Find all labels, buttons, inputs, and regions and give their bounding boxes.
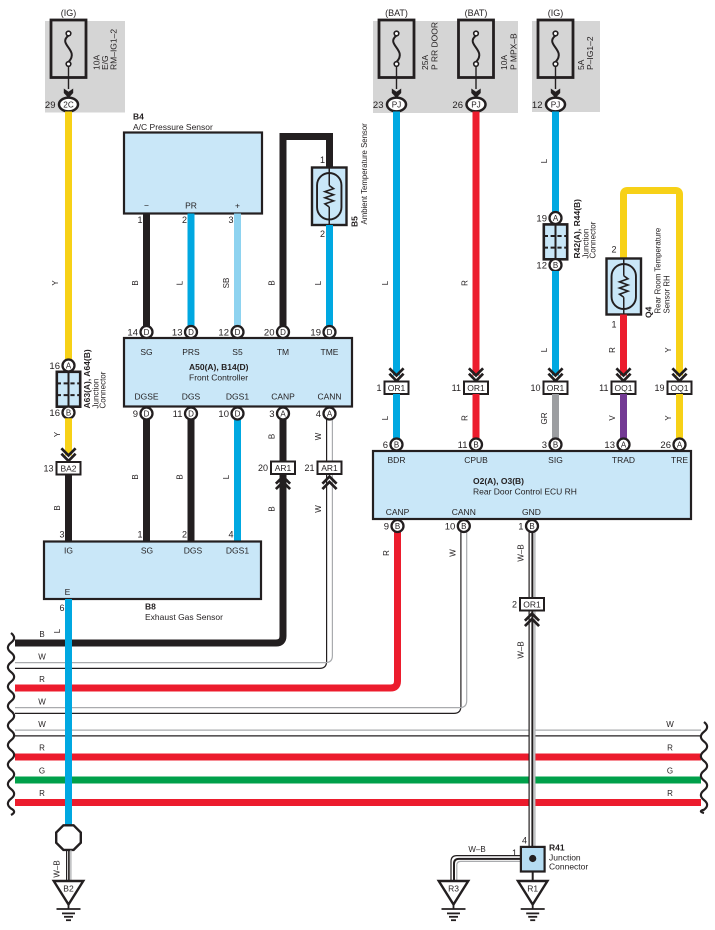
svg-text:BA2: BA2	[60, 463, 76, 473]
svg-text:W: W	[38, 698, 46, 707]
svg-text:19: 19	[310, 327, 321, 338]
exhaust gas sensor B8	[44, 542, 261, 623]
svg-text:G: G	[39, 767, 45, 776]
wire L, OR1 to BDR	[381, 394, 397, 445]
svg-text:Y: Y	[664, 347, 673, 353]
svg-text:RM–IG1–2: RM–IG1–2	[109, 29, 119, 70]
svg-text:V: V	[608, 415, 617, 421]
svg-text:1: 1	[137, 215, 142, 225]
connector PJ pin 23	[373, 98, 406, 112]
svg-text:W–B: W–B	[517, 641, 526, 658]
svg-text:(IG): (IG)	[61, 8, 77, 18]
svg-text:AR1: AR1	[275, 463, 292, 473]
rear room temperature sensor Q4	[607, 228, 672, 318]
svg-text:R: R	[382, 550, 391, 556]
wire L, B4 pin 2 to PRS	[176, 214, 192, 333]
svg-text:L: L	[176, 280, 185, 285]
svg-text:S5: S5	[232, 347, 243, 357]
svg-text:6: 6	[383, 440, 388, 451]
svg-text:R: R	[608, 347, 617, 353]
wire R, OR1 to CPUB	[461, 394, 477, 445]
svg-text:R41: R41	[549, 843, 565, 853]
svg-text:20: 20	[258, 463, 268, 473]
svg-text:PR: PR	[185, 201, 197, 211]
wire L, junction R44 to OR1	[540, 271, 556, 376]
svg-text:OR1: OR1	[388, 383, 406, 393]
pin 10 B (CANN)	[445, 520, 470, 532]
svg-text:R3: R3	[448, 884, 459, 894]
svg-text:12: 12	[218, 327, 229, 338]
wire B, TM to B5 pin 1	[268, 137, 330, 333]
svg-text:TME: TME	[321, 347, 339, 357]
svg-text:Rear Room Temperature: Rear Room Temperature	[654, 228, 663, 314]
svg-text:PRS: PRS	[182, 347, 200, 357]
fuse 25A P RR DOOR	[379, 8, 440, 98]
svg-text:9: 9	[133, 409, 138, 420]
svg-text:OR1: OR1	[523, 599, 541, 609]
wire Y, junction A64 to BA2	[53, 418, 69, 455]
svg-text:PJ: PJ	[551, 100, 561, 109]
connector AR1 pin 21 with arrow	[304, 462, 341, 490]
svg-text:W: W	[38, 653, 46, 662]
svg-text:B5: B5	[350, 216, 360, 227]
svg-text:Front Controller: Front Controller	[189, 373, 248, 383]
junction connector R41	[512, 836, 588, 872]
wire R bus, ECU CANP to left edge	[15, 532, 398, 689]
svg-text:Connector: Connector	[589, 221, 598, 258]
svg-text:13: 13	[604, 440, 615, 451]
pin 3 B (SIG)	[542, 439, 562, 451]
svg-text:A: A	[66, 361, 72, 370]
connector BA2 pin 13 with arrow	[43, 448, 80, 474]
wire W bus full width	[15, 720, 701, 737]
svg-text:Sensor RH: Sensor RH	[663, 275, 672, 313]
svg-text:21: 21	[304, 463, 314, 473]
svg-text:L: L	[540, 347, 549, 352]
svg-text:W–B: W–B	[468, 845, 485, 854]
connector AR1 pin 20 with arrow	[258, 462, 295, 490]
svg-text:CANN: CANN	[317, 392, 341, 402]
fuse 5A P-IG1-2	[538, 8, 595, 98]
svg-text:A: A	[280, 409, 286, 418]
svg-text:19: 19	[654, 383, 664, 393]
svg-text:R1: R1	[527, 884, 538, 894]
wire W-B, ECU GND to R41 pin 4	[517, 532, 536, 847]
svg-text:B: B	[268, 506, 277, 511]
pin 10 D (DGS1)	[218, 408, 243, 420]
wire GR, OR1 to SIG	[540, 394, 556, 445]
wire R, Q4 pin 1 to OQ1	[608, 315, 624, 376]
pin 26 A (TRE)	[660, 439, 685, 451]
svg-text:W: W	[449, 549, 458, 557]
svg-text:OQ1: OQ1	[671, 383, 689, 393]
svg-text:DGSE: DGSE	[134, 392, 158, 402]
wire Y loop, Q4 pin 2 to OQ1 pin 19	[611, 191, 679, 376]
svg-text:−: −	[144, 201, 149, 211]
connector OR1 pin 10 with arrow	[530, 368, 567, 394]
svg-text:2: 2	[182, 530, 187, 540]
fuse 10A P MPX-B	[459, 8, 519, 98]
rear door control ECU RH O2(A) O3(B)	[373, 451, 691, 519]
wire B, DGSE to exhaust SG	[131, 414, 147, 542]
svg-text:B: B	[176, 474, 185, 479]
front controller A50(A) B14(D)	[124, 338, 352, 407]
pin 14 D (SG)	[127, 326, 152, 338]
svg-text:A63(A), A64(B): A63(A), A64(B)	[82, 349, 92, 408]
svg-text:A: A	[327, 409, 333, 418]
svg-text:TRE: TRE	[671, 455, 688, 465]
pin 1 B (GND)	[518, 520, 538, 532]
A/C pressure sensor B4	[124, 112, 262, 214]
svg-text:OQ1: OQ1	[615, 383, 633, 393]
svg-text:L: L	[540, 158, 549, 163]
svg-text:(BAT): (BAT)	[385, 8, 408, 18]
svg-text:DGS: DGS	[184, 546, 203, 556]
pin 9 D (DGSE)	[133, 408, 153, 420]
svg-text:W: W	[314, 505, 323, 513]
svg-text:B8: B8	[145, 602, 156, 612]
svg-text:B2: B2	[63, 884, 74, 894]
svg-text:B: B	[131, 474, 140, 479]
svg-text:B: B	[394, 440, 399, 449]
junction connector R42(A) R44(B)	[536, 199, 597, 272]
svg-text:D: D	[235, 328, 241, 337]
svg-text:B: B	[131, 280, 140, 285]
wire R bus 2 full width	[15, 789, 701, 803]
wire L, fuse PJ 23 to OR1	[381, 112, 397, 376]
connector PJ pin 12	[532, 98, 565, 112]
svg-text:B: B	[553, 440, 558, 449]
svg-text:SB: SB	[222, 278, 231, 289]
svg-text:DGS1: DGS1	[226, 392, 249, 402]
svg-text:12: 12	[536, 260, 547, 271]
svg-text:PJ: PJ	[471, 100, 481, 109]
svg-text:11: 11	[458, 440, 468, 451]
svg-text:PJ: PJ	[392, 100, 402, 109]
svg-text:13: 13	[43, 463, 53, 473]
wire B, CANP to AR1	[268, 414, 284, 462]
svg-text:1: 1	[512, 848, 517, 858]
svg-text:3: 3	[228, 215, 233, 225]
wire L, exhaust E to shield octagon	[53, 599, 69, 826]
svg-text:26: 26	[660, 440, 671, 451]
svg-text:P MPX–B: P MPX–B	[509, 33, 519, 70]
svg-text:L: L	[381, 280, 390, 285]
wire W-B, R41 pin 1 to ground R3	[451, 845, 521, 881]
wire W bus, ECU CANN to left edge	[15, 532, 467, 714]
svg-text:Connector: Connector	[549, 862, 588, 872]
svg-text:BDR: BDR	[388, 455, 406, 465]
svg-text:CANN: CANN	[452, 507, 476, 517]
svg-text:1: 1	[137, 530, 142, 540]
svg-text:Connector: Connector	[99, 371, 108, 408]
pin 11 D (DGS)	[173, 408, 197, 420]
svg-text:P–IG1–2: P–IG1–2	[585, 36, 595, 70]
svg-text:IG: IG	[64, 546, 73, 556]
svg-text:10: 10	[530, 383, 540, 393]
svg-text:SG: SG	[141, 546, 153, 556]
svg-text:13: 13	[172, 327, 183, 338]
svg-text:16: 16	[49, 361, 60, 372]
svg-text:23: 23	[373, 100, 384, 111]
svg-text:B: B	[53, 505, 62, 510]
svg-text:L: L	[381, 415, 390, 420]
svg-text:Q4: Q4	[644, 306, 654, 318]
pin 4 A (CANN)	[316, 408, 336, 420]
svg-text:GR: GR	[540, 412, 549, 424]
connector 2C pin 29	[45, 98, 78, 112]
fuse block background middle (BAT/BAT)	[373, 21, 518, 113]
svg-text:O2(A), O3(B): O2(A), O3(B)	[473, 476, 524, 486]
svg-text:1: 1	[518, 521, 523, 532]
svg-text:B: B	[66, 408, 71, 417]
svg-text:20: 20	[264, 327, 275, 338]
ground R1	[518, 881, 548, 920]
svg-text:10: 10	[218, 409, 229, 420]
wire W, CANN to AR1	[314, 414, 333, 462]
svg-text:L: L	[314, 280, 323, 285]
svg-text:Y: Y	[664, 415, 673, 421]
svg-text:L: L	[222, 474, 231, 479]
svg-text:B: B	[395, 522, 400, 531]
svg-text:B: B	[461, 522, 466, 531]
pin 19 D (TME)	[310, 326, 335, 338]
svg-text:SG: SG	[140, 347, 152, 357]
ambient temperature sensor B5	[312, 123, 369, 227]
svg-text:D: D	[235, 409, 241, 418]
wire L, DGS1 to exhaust DGS1	[222, 414, 238, 542]
svg-text:1: 1	[376, 383, 381, 393]
svg-text:CANP: CANP	[386, 507, 410, 517]
wire L, B5 pin 2 to TME	[314, 225, 330, 332]
svg-text:(IG): (IG)	[548, 8, 564, 18]
svg-text:B: B	[268, 280, 277, 285]
svg-text:R: R	[39, 675, 45, 684]
pin 13 D (PRS)	[172, 326, 197, 338]
svg-text:L: L	[53, 628, 62, 633]
pin 6 B (BDR)	[383, 439, 403, 451]
wire V, OQ1 to TRAD	[608, 394, 624, 445]
svg-text:10A: 10A	[499, 55, 509, 70]
svg-text:B: B	[268, 434, 277, 439]
svg-text:Ambient Temperature Sensor: Ambient Temperature Sensor	[360, 123, 369, 225]
svg-text:A50(A), B14(D): A50(A), B14(D)	[189, 362, 249, 372]
shielded ground octagon	[56, 825, 81, 850]
pin 12 D (S5)	[218, 326, 243, 338]
wire SB, B4 pin 3 to S5	[222, 214, 238, 333]
fuse 10A E/G RM-IG1-2	[51, 8, 119, 98]
svg-text:Y: Y	[53, 431, 62, 437]
svg-text:OR1: OR1	[467, 383, 485, 393]
svg-text:4: 4	[316, 409, 321, 420]
svg-text:14: 14	[127, 327, 138, 338]
svg-text:DGS1: DGS1	[226, 546, 249, 556]
wire W-B, octagon to ground B2	[53, 850, 71, 881]
svg-text:W: W	[314, 432, 323, 440]
svg-text:1: 1	[320, 155, 325, 165]
svg-text:D: D	[188, 409, 194, 418]
svg-text:4: 4	[522, 836, 527, 846]
svg-text:W–B: W–B	[53, 860, 62, 877]
svg-text:(BAT): (BAT)	[465, 8, 488, 18]
svg-text:B: B	[553, 261, 558, 270]
svg-text:11: 11	[599, 383, 608, 393]
wire R, fuse PJ 26 to OR1	[461, 112, 477, 376]
svg-text:3: 3	[59, 530, 64, 540]
svg-text:4: 4	[228, 530, 233, 540]
junction connector A63(A) A64(B)	[49, 349, 107, 419]
wire B, BA2 to exhaust gas sensor IG	[53, 475, 69, 542]
svg-text:2: 2	[182, 215, 187, 225]
svg-text:+: +	[235, 201, 240, 211]
svg-text:12: 12	[532, 100, 543, 111]
svg-text:B4: B4	[133, 112, 144, 122]
wire, R41 to ground R1	[532, 872, 534, 882]
svg-text:W–B: W–B	[517, 544, 526, 561]
svg-text:G: G	[667, 767, 673, 776]
svg-text:2C: 2C	[63, 100, 74, 109]
svg-text:A: A	[677, 440, 683, 449]
pin 3 A (CANP)	[269, 408, 289, 420]
svg-text:A/C Pressure Sensor: A/C Pressure Sensor	[133, 122, 213, 132]
svg-text:Y: Y	[51, 280, 60, 286]
svg-text:2: 2	[512, 599, 517, 609]
svg-text:1: 1	[611, 320, 616, 330]
svg-text:D: D	[280, 328, 286, 337]
svg-text:25A: 25A	[420, 55, 430, 70]
wire L, fuse PJ 12 to junction R42	[540, 112, 556, 219]
fuse block background left (IG)	[45, 21, 125, 113]
wire B bus, AR1 20 to left edge	[15, 475, 283, 644]
svg-text:W: W	[38, 720, 46, 729]
svg-text:11: 11	[452, 383, 461, 393]
svg-text:W: W	[666, 720, 674, 729]
connector OQ1 pin 11 with arrow	[599, 368, 635, 394]
svg-text:DGS: DGS	[182, 392, 201, 402]
svg-text:B: B	[39, 630, 44, 639]
svg-text:D: D	[144, 409, 150, 418]
wire B, DGS to exhaust DGS	[176, 414, 192, 542]
wire R bus full width	[15, 744, 701, 758]
svg-text:B: B	[529, 522, 534, 531]
connector PJ pin 26	[452, 98, 485, 112]
pin 20 D (TM)	[264, 326, 289, 338]
ground R3	[439, 881, 469, 920]
connector OR1 pin 1 with arrow	[376, 368, 408, 394]
svg-text:GND: GND	[522, 507, 541, 517]
connector OR1 pin 2 with arrow	[512, 598, 544, 626]
svg-text:R: R	[39, 744, 45, 753]
svg-text:CANP: CANP	[271, 392, 295, 402]
wire W bus, AR1 21 to left edge	[15, 475, 332, 669]
svg-text:Rear Door Control ECU RH: Rear Door Control ECU RH	[473, 487, 577, 497]
pin 9 B (CANP)	[384, 520, 404, 532]
wire Y, OQ1 to TRE	[664, 394, 680, 445]
svg-text:9: 9	[384, 521, 389, 532]
svg-text:2: 2	[320, 229, 325, 239]
svg-text:R: R	[39, 789, 45, 798]
wire B, B4 pin 1 to SG	[131, 214, 147, 333]
fuse block background right (IG)	[532, 21, 600, 112]
svg-text:D: D	[188, 328, 194, 337]
connector OR1 pin 11 with arrow	[452, 368, 488, 394]
svg-text:16: 16	[49, 408, 60, 419]
ground B2	[54, 881, 84, 920]
wire G bus full width	[15, 767, 701, 781]
left continuation wavy line	[8, 633, 14, 815]
svg-text:R: R	[667, 744, 673, 753]
svg-text:R: R	[667, 789, 673, 798]
svg-text:E: E	[65, 587, 71, 597]
svg-text:11: 11	[173, 409, 183, 420]
svg-text:R42(A), R44(B): R42(A), R44(B)	[572, 199, 582, 259]
svg-text:A: A	[621, 440, 627, 449]
svg-text:OR1: OR1	[547, 383, 565, 393]
pin 13 A (TRAD)	[604, 439, 629, 451]
svg-text:D: D	[327, 328, 333, 337]
svg-text:19: 19	[536, 213, 547, 224]
svg-text:B: B	[473, 440, 478, 449]
svg-text:D: D	[144, 328, 150, 337]
svg-text:P RR DOOR: P RR DOOR	[430, 22, 440, 70]
svg-text:A: A	[553, 214, 559, 223]
connector OQ1 pin 19 with arrow	[654, 368, 691, 394]
svg-text:AR1: AR1	[321, 463, 338, 473]
pin 11 B (CPUB)	[458, 439, 482, 451]
svg-text:6: 6	[59, 603, 64, 613]
svg-text:29: 29	[45, 100, 56, 111]
svg-text:2: 2	[611, 245, 616, 255]
svg-text:TM: TM	[277, 347, 289, 357]
svg-text:3: 3	[269, 409, 274, 420]
svg-text:CPUB: CPUB	[464, 455, 488, 465]
svg-text:Exhaust Gas Sensor: Exhaust Gas Sensor	[145, 612, 223, 622]
svg-text:R: R	[461, 280, 470, 286]
svg-text:26: 26	[452, 100, 463, 111]
wire Y, fuse 2C to junction A63	[51, 112, 69, 366]
svg-text:R: R	[461, 415, 470, 421]
svg-text:10: 10	[445, 521, 456, 532]
svg-text:SIG: SIG	[548, 455, 563, 465]
svg-text:TRAD: TRAD	[612, 455, 635, 465]
svg-text:3: 3	[542, 440, 547, 451]
right continuation wavy line	[701, 722, 707, 813]
